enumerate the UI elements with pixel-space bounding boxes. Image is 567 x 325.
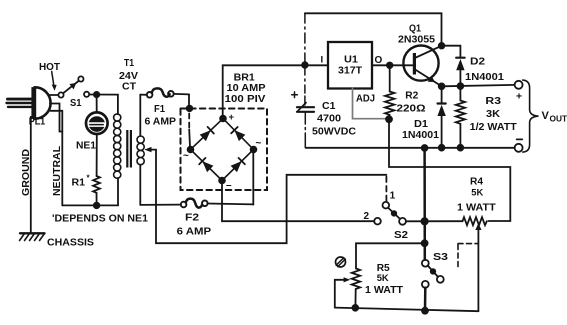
svg-text:6 AMP: 6 AMP bbox=[145, 116, 177, 127]
svg-text:R2: R2 bbox=[405, 90, 418, 101]
svg-text:220Ω: 220Ω bbox=[397, 103, 426, 114]
svg-text:–: – bbox=[226, 180, 232, 191]
svg-text:S2: S2 bbox=[394, 230, 408, 241]
svg-text:6 AMP: 6 AMP bbox=[177, 226, 212, 237]
svg-text:50WVDC: 50WVDC bbox=[312, 127, 357, 138]
svg-text:1N4001: 1N4001 bbox=[465, 72, 505, 83]
svg-text:I: I bbox=[321, 55, 324, 66]
svg-text:5K: 5K bbox=[471, 186, 483, 197]
svg-text:PL1: PL1 bbox=[29, 117, 46, 128]
svg-text:R1: R1 bbox=[72, 178, 86, 189]
svg-text:10 AMP: 10 AMP bbox=[227, 83, 266, 94]
svg-text:24V: 24V bbox=[119, 71, 138, 82]
svg-text:CT: CT bbox=[122, 81, 137, 92]
svg-text:'DEPENDS ON NE1: 'DEPENDS ON NE1 bbox=[52, 214, 149, 225]
svg-text:D1: D1 bbox=[414, 119, 428, 130]
svg-text:NE1: NE1 bbox=[76, 141, 96, 152]
svg-text:2N3055: 2N3055 bbox=[398, 34, 435, 45]
svg-text:V: V bbox=[542, 110, 550, 122]
svg-text:BR1: BR1 bbox=[234, 72, 256, 83]
svg-text:1N4001: 1N4001 bbox=[402, 130, 440, 141]
svg-text:4700: 4700 bbox=[317, 114, 341, 125]
svg-text:S3: S3 bbox=[433, 252, 448, 263]
svg-text:GROUND: GROUND bbox=[21, 149, 32, 196]
svg-text:O: O bbox=[375, 55, 383, 66]
svg-text:T1: T1 bbox=[124, 58, 134, 69]
svg-text:D2: D2 bbox=[470, 57, 485, 68]
svg-text:OUT: OUT bbox=[550, 114, 567, 124]
svg-text:S1: S1 bbox=[70, 98, 82, 109]
svg-text:NEUTRAL: NEUTRAL bbox=[52, 146, 63, 196]
svg-text:100 PIV: 100 PIV bbox=[225, 94, 266, 105]
svg-text:+: + bbox=[516, 92, 522, 103]
svg-text:1/2 WATT: 1/2 WATT bbox=[470, 122, 517, 133]
svg-text:2: 2 bbox=[364, 211, 370, 222]
svg-text:ADJ: ADJ bbox=[356, 94, 375, 105]
svg-text:CHASSIS: CHASSIS bbox=[47, 238, 94, 249]
svg-text:5K: 5K bbox=[377, 272, 389, 283]
svg-text:F2: F2 bbox=[185, 212, 200, 223]
svg-text:U1: U1 bbox=[344, 54, 358, 65]
svg-text:F1: F1 bbox=[154, 104, 165, 115]
svg-text:1 WATT: 1 WATT bbox=[457, 203, 496, 214]
svg-text:~: ~ bbox=[256, 138, 262, 149]
svg-text:1 WATT: 1 WATT bbox=[365, 285, 403, 296]
svg-text:~: ~ bbox=[183, 151, 189, 162]
svg-text:317T: 317T bbox=[338, 65, 362, 76]
svg-text:Q1: Q1 bbox=[409, 24, 421, 35]
svg-text:HOT: HOT bbox=[39, 62, 61, 73]
svg-text:3K: 3K bbox=[486, 109, 501, 120]
svg-text:C1: C1 bbox=[322, 101, 336, 112]
svg-text:1: 1 bbox=[390, 191, 396, 202]
svg-text:+: + bbox=[229, 112, 235, 123]
svg-text:R3: R3 bbox=[485, 96, 501, 107]
